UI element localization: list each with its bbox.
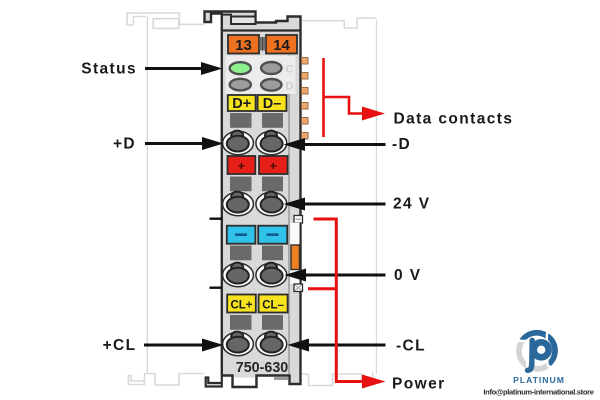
ghost outline left neighbor module bottom [128, 373, 203, 385]
bottom foot pad [274, 377, 288, 381]
wire opening row1 left [230, 113, 252, 128]
svg-text:C: C [286, 64, 294, 76]
svg-text:D+: D+ [232, 96, 251, 112]
power red arrowhead [362, 375, 386, 389]
data contact 6 [302, 133, 309, 140]
LED status green [230, 62, 251, 74]
terminal label D+ [228, 95, 256, 111]
terminal label D- [258, 95, 287, 111]
svg-text:-CL: -CL [396, 338, 426, 355]
arrow -CL [288, 339, 386, 352]
power jumper latch lower [294, 284, 303, 292]
wire opening row4 left [230, 315, 252, 330]
terminal label CL+ [227, 295, 256, 313]
svg-text:14: 14 [273, 37, 290, 54]
arrow Status [145, 62, 223, 75]
wire opening row2 left [230, 177, 252, 192]
wire opening row3 right [262, 246, 283, 261]
svg-text:13: 13 [235, 37, 252, 54]
connector between 13 and 14 [259, 37, 267, 51]
module left foot [206, 376, 222, 387]
svg-text:D–: D– [263, 96, 282, 112]
svg-text:D: D [286, 80, 294, 92]
svg-text:0 V: 0 V [394, 267, 421, 284]
terminal label + right [259, 156, 288, 174]
arrow +CL [144, 339, 224, 352]
clamp opening CL [223, 332, 287, 356]
svg-text:+: + [270, 159, 277, 173]
terminal label - left blue [227, 226, 256, 244]
wire opening row1 right [262, 113, 283, 128]
terminal label - right blue [258, 226, 287, 244]
power red bracket [308, 219, 362, 382]
watermark logo emblem [515, 329, 559, 373]
svg-text:PLATINUM: PLATINUM [513, 375, 565, 385]
wire opening row3 left [230, 246, 252, 261]
watermark P glyph [534, 342, 549, 357]
svg-text:+D: +D [113, 135, 136, 152]
arrow 0V [285, 269, 386, 282]
data contact 4 [302, 103, 309, 110]
LED C gray [261, 62, 281, 74]
power jumper latch upper [294, 216, 303, 224]
module top bar underside [222, 14, 232, 16]
svg-text:+: + [238, 159, 245, 173]
power contact blade 0V [291, 245, 300, 270]
power jumper tick left lower [210, 287, 223, 289]
svg-text:Status: Status [81, 61, 137, 78]
data contact 1 [302, 58, 309, 65]
svg-text:CL+: CL+ [230, 299, 252, 311]
clamp opening 24V [223, 192, 287, 216]
module housing top divider [222, 29, 301, 31]
svg-text:Info@platinum-international.st: Info@platinum-international.store [483, 388, 593, 397]
terminal 14 [266, 35, 297, 54]
svg-text:Data contacts: Data contacts [394, 111, 514, 128]
data contacts red bracket [324, 58, 363, 137]
svg-text:-D: -D [392, 136, 411, 153]
module top slot [231, 17, 256, 25]
power jumper tick left upper [210, 217, 223, 219]
arrow +D [145, 137, 224, 150]
wire opening row2 right [262, 177, 283, 192]
ghost wire left neighbor left edge [146, 17, 148, 374]
clamp opening +D [223, 131, 287, 155]
data contact 5 [302, 118, 309, 125]
ghost outline right neighbor module bottom [302, 373, 373, 386]
svg-text:CL–: CL– [262, 299, 284, 311]
svg-text:+CL: +CL [103, 337, 137, 354]
module bottom latch interior [234, 378, 255, 386]
data contacts red arrowhead [362, 107, 385, 121]
LED D gray [261, 79, 281, 91]
arrow 24V [284, 198, 386, 211]
ghost outline left neighbor module top [127, 13, 205, 28]
terminal label + left [228, 156, 256, 174]
data contact 2 [302, 73, 309, 80]
wire opening row4 right [262, 315, 283, 330]
terminal 13 [228, 35, 259, 54]
ghost outline right neighbor module top [302, 18, 376, 28]
terminal label CL- [259, 295, 288, 313]
svg-text:Power: Power [392, 375, 446, 392]
clamp opening 0V [223, 263, 287, 287]
arrow -D [284, 138, 386, 151]
LED B gray [230, 79, 251, 91]
right strip white lower [290, 270, 299, 285]
right strip white upper [290, 223, 299, 245]
data contact 3 [302, 88, 309, 95]
svg-text:24 V: 24 V [393, 196, 431, 213]
LED panel [226, 56, 296, 95]
ghost wire right neighbor right edge [375, 20, 377, 374]
svg-text:750-630: 750-630 [236, 360, 289, 376]
module 750-630 housing outline [205, 12, 301, 388]
module inner divider line [288, 55, 290, 374]
